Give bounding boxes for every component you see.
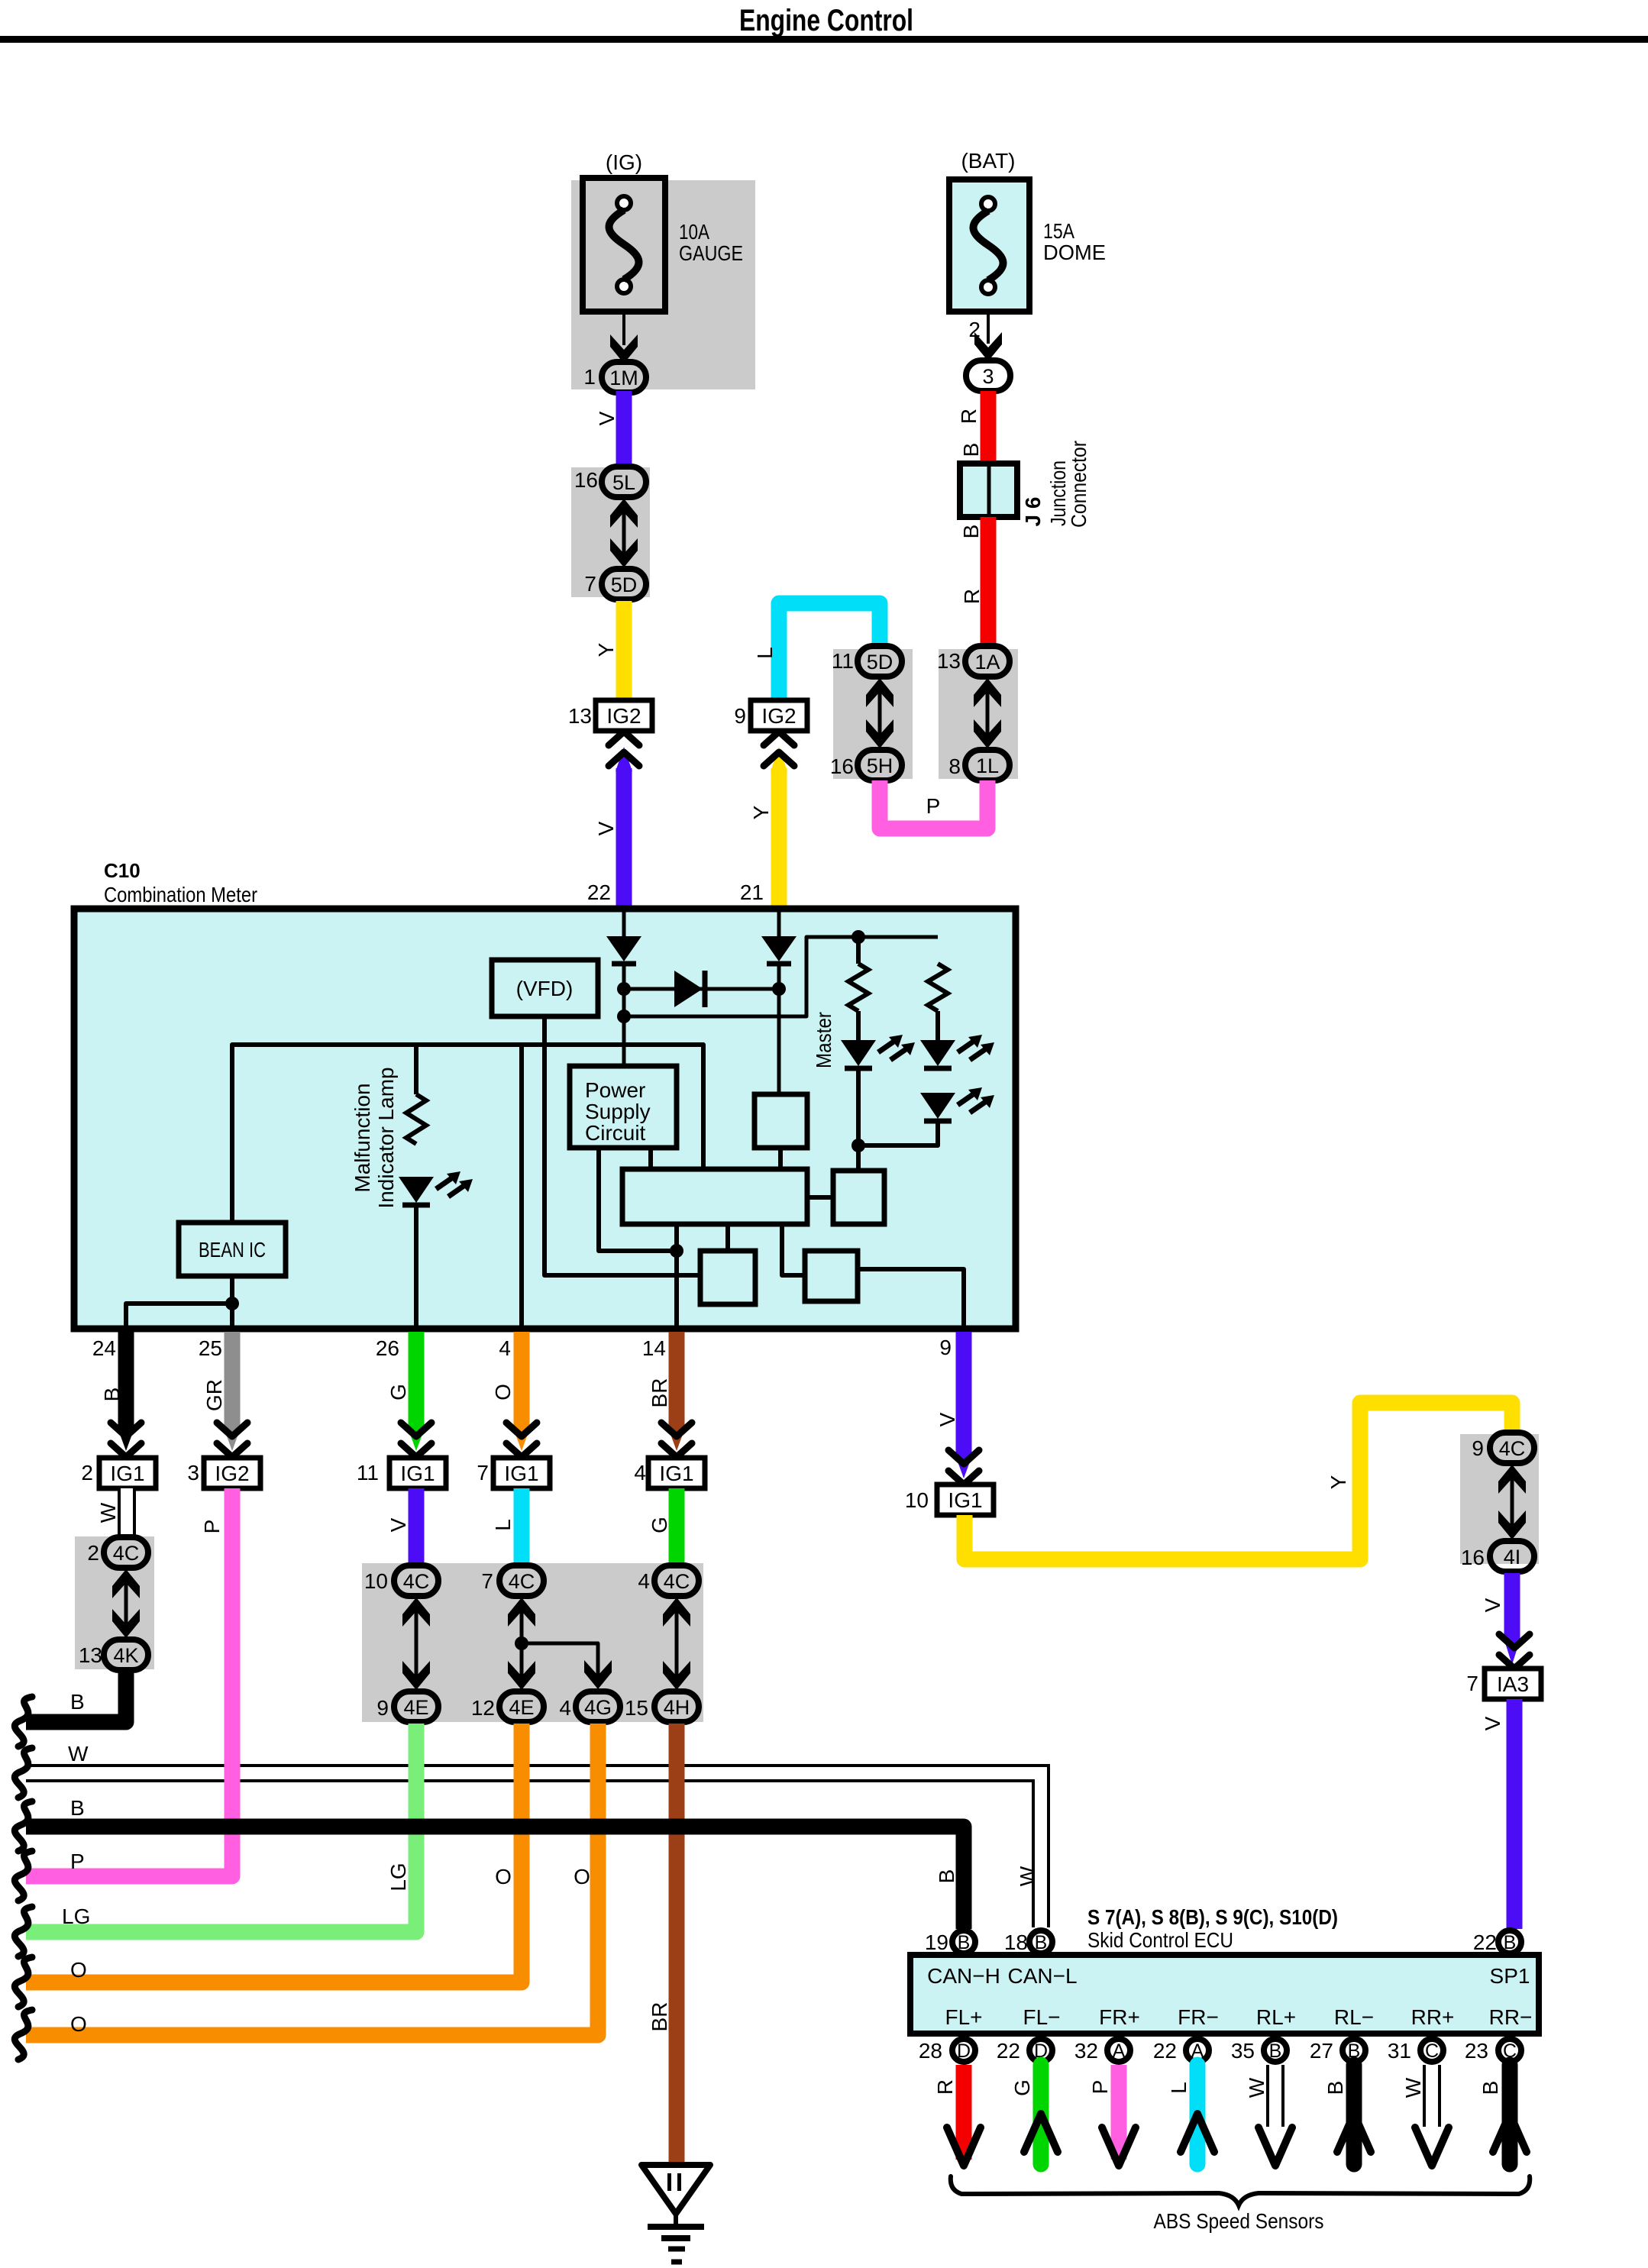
svg-text:7: 7 [481, 1569, 493, 1593]
label RL- [1334, 2005, 1374, 2029]
svg-text:4G: 4G [584, 1696, 612, 1719]
connector 4E pin 12 [471, 1691, 544, 1722]
gray box connectors 5L/5D [571, 467, 650, 597]
brace ABS Speed Sensors [951, 2176, 1530, 2205]
LED master 1 [841, 1035, 915, 1068]
pass-through arrow 4C to 4K [112, 1569, 140, 1638]
connector 3 [966, 360, 1010, 391]
title: Engine Control [739, 4, 913, 37]
svg-text:(BAT): (BAT) [961, 149, 1015, 173]
label CAN-L [1007, 1964, 1077, 1988]
junction block IA3 pin 7 [1466, 1669, 1541, 1699]
svg-text:L: L [1167, 2082, 1191, 2094]
svg-text:B: B [935, 1869, 958, 1884]
connector 5D pin 7 [584, 569, 646, 599]
wire branch2 to dot4 [858, 1121, 938, 1145]
svg-text:9: 9 [376, 1696, 389, 1720]
svg-text:V: V [1481, 1716, 1504, 1730]
svg-text:4C: 4C [403, 1570, 430, 1593]
svg-text:Combination Meter: Combination Meter [104, 883, 257, 906]
svg-text:B: B [1269, 2040, 1282, 2062]
svg-text:P: P [1088, 2080, 1112, 2095]
wire B5 to pin9 [858, 1269, 964, 1327]
svg-text:Engine Control: Engine Control [739, 4, 913, 37]
pass-through arrow 4C-4 to 4H-15 [663, 1598, 690, 1690]
big logic box [622, 1169, 807, 1224]
wire BEAN IC to pin25 [230, 1276, 234, 1327]
ground II [641, 2165, 710, 2262]
svg-text:(IG): (IG) [606, 150, 642, 174]
wire R from 3 to J6 [981, 391, 997, 466]
svg-text:13: 13 [79, 1643, 102, 1667]
svg-text:1A: 1A [974, 651, 1000, 674]
pin circle B 19 [925, 1930, 975, 1954]
svg-text:B: B [100, 1388, 124, 1402]
connector 4C pin 9 [1472, 1433, 1534, 1463]
svg-text:5H: 5H [867, 754, 893, 777]
svg-text:FR+: FR+ [1099, 2005, 1140, 2029]
svg-text:J 6: J 6 [1021, 497, 1045, 527]
label O vertical 2 [574, 1865, 590, 1888]
label Y [594, 642, 618, 657]
svg-text:13: 13 [568, 704, 592, 728]
svg-text:B: B [70, 1796, 85, 1820]
svg-text:W: W [68, 1742, 89, 1766]
svg-text:12: 12 [471, 1696, 495, 1720]
label 10A GAUGE [679, 220, 743, 265]
svg-text:4I: 4I [1504, 1546, 1521, 1569]
diode D1 [606, 936, 641, 964]
svg-text:V: V [386, 1517, 410, 1532]
wire L FR- sensor [1181, 2065, 1214, 2164]
label O row 2 [70, 2012, 87, 2036]
connector 5H pin 16 [830, 750, 902, 780]
svg-text:1: 1 [583, 365, 596, 389]
box B5 [805, 1251, 858, 1301]
label R [957, 409, 981, 424]
arrow into IG1-2 [111, 1423, 141, 1457]
label R [960, 589, 984, 604]
combination meter C10 box [74, 909, 1016, 1329]
wire pin24 internal [126, 1304, 232, 1327]
gray box connectors 4C/4E/4G/4H [362, 1563, 703, 1722]
label P [1088, 2080, 1112, 2095]
label Malfunction Indicator Lamp [351, 1067, 398, 1208]
svg-text:22: 22 [587, 880, 611, 904]
page break curl B row 2 [15, 1801, 32, 1851]
svg-text:35: 35 [1231, 2039, 1255, 2063]
wire LG from 4E-9 to left edge [26, 1724, 416, 1932]
box B3 [700, 1251, 755, 1304]
svg-text:RL+: RL+ [1256, 2005, 1296, 2029]
branch wire to 4G [522, 1643, 598, 1684]
connector 5D pin 11 [832, 646, 902, 677]
gray box connectors 1A-13/1L-8 [939, 649, 1018, 779]
skid control ECU box [910, 1955, 1539, 2034]
pin circle D 28 [919, 2039, 975, 2063]
svg-text:22: 22 [1473, 1930, 1497, 1954]
label B [959, 525, 983, 539]
label Combination Meter [104, 883, 257, 906]
connector 4E pin 9 [376, 1691, 438, 1722]
box BEAN IC [179, 1223, 286, 1276]
wire G IG1-4 to 4C-4 [669, 1488, 685, 1567]
svg-text:9: 9 [1472, 1436, 1484, 1460]
svg-text:RR−: RR− [1489, 2005, 1533, 2029]
label FR- [1178, 2005, 1219, 2029]
label C10 [104, 859, 141, 882]
svg-text:1L: 1L [976, 754, 999, 777]
svg-text:RL−: RL− [1334, 2005, 1374, 2029]
svg-text:5D: 5D [867, 651, 893, 674]
svg-text:Master: Master [812, 1012, 835, 1068]
svg-text:L: L [491, 1519, 515, 1531]
label Y [1326, 1475, 1350, 1489]
connector 4C pin 4 [638, 1565, 699, 1596]
wire bigbox to B3 [725, 1224, 730, 1251]
diode D3 horizontal [674, 971, 705, 1007]
connector 4K pin 13 [79, 1640, 148, 1670]
svg-text:A: A [1113, 2040, 1126, 2062]
node dot 4G branch [515, 1636, 528, 1650]
svg-text:W: W [1401, 2077, 1425, 2098]
svg-text:LG: LG [386, 1863, 410, 1891]
resistor master branch 1 [848, 937, 868, 1040]
pass-through arrow 1A to 1L [974, 678, 1001, 748]
svg-text:Connector: Connector [1067, 441, 1091, 528]
svg-text:21: 21 [740, 880, 764, 904]
svg-text:O: O [491, 1384, 515, 1401]
label B [959, 443, 983, 457]
svg-text:B: B [70, 1690, 85, 1714]
label W [1401, 2077, 1425, 2098]
node dot6 [225, 1297, 239, 1310]
svg-text:GR: GR [202, 1379, 226, 1411]
node dot5 [670, 1244, 683, 1258]
svg-text:31: 31 [1388, 2039, 1411, 2063]
junction block IG1 pin 2 [81, 1458, 156, 1488]
svg-text:4C: 4C [1499, 1437, 1526, 1460]
box Power Supply Circuit [570, 1066, 677, 1148]
label B row [70, 1796, 85, 1820]
wire bigbox to B2 [807, 1195, 833, 1200]
wire W IG1-2 to 4C-2 [118, 1488, 136, 1539]
svg-text:26: 26 [376, 1336, 399, 1360]
svg-text:P: P [200, 1520, 224, 1534]
label 21 meter pin [740, 880, 764, 904]
svg-text:3: 3 [187, 1461, 199, 1485]
svg-text:14: 14 [642, 1336, 666, 1360]
label LG row [62, 1905, 90, 1928]
junction block IG1 pin 4 [634, 1458, 705, 1488]
svg-text:O: O [70, 2012, 87, 2036]
svg-text:27: 27 [1310, 2039, 1333, 2063]
svg-text:IG2: IG2 [215, 1462, 249, 1485]
arrow into IG1-7 [506, 1423, 537, 1457]
wire V from 1M to 5L [616, 391, 632, 470]
svg-text:8: 8 [948, 754, 961, 778]
label RL+ [1256, 2005, 1296, 2029]
label V [1481, 1716, 1504, 1730]
pin circle A 32 [1074, 2039, 1130, 2063]
wire V pin9 [955, 1332, 972, 1478]
svg-text:G: G [1010, 2079, 1034, 2096]
wire L from IG2-9 up to 5D-11 [779, 603, 880, 703]
svg-text:V: V [595, 411, 619, 425]
gray box connectors 5D-11/5H-16 [833, 649, 913, 779]
svg-text:B: B [1323, 2081, 1347, 2095]
svg-text:4: 4 [499, 1336, 511, 1360]
connector 5L pin 16 [574, 467, 646, 497]
label ABS Speed Sensors [1154, 2209, 1324, 2233]
svg-text:3: 3 [982, 365, 994, 388]
svg-text:18: 18 [1004, 1930, 1028, 1954]
gray box connectors 4C-2/4K-13 [75, 1536, 154, 1669]
wire R from J6 to 1A [981, 517, 997, 652]
label pin 24 [92, 1336, 116, 1360]
diode D2 [761, 936, 797, 964]
wire PSC to dot5 [599, 1148, 677, 1251]
fuse 15A DOME [949, 179, 1029, 312]
svg-text:16: 16 [830, 754, 854, 778]
wire H1 dot1-dot3 [624, 987, 779, 991]
svg-text:O: O [574, 1865, 590, 1888]
wire P FR+ sensor [1102, 2065, 1136, 2166]
svg-text:B: B [959, 443, 983, 457]
label BR [648, 1378, 671, 1408]
wire V from 4I to IA3 [1504, 1573, 1520, 1665]
node dot4 [851, 1139, 865, 1152]
pin circle B 18 [1004, 1930, 1052, 1954]
label L [491, 1519, 515, 1531]
svg-text:RR+: RR+ [1411, 2005, 1455, 2029]
label pin 2 [968, 318, 981, 341]
svg-text:10: 10 [364, 1569, 388, 1593]
wire pin4 internal [519, 1045, 524, 1327]
wire G pin26 [408, 1332, 425, 1451]
label G [1010, 2079, 1034, 2096]
svg-text:FR−: FR− [1178, 2005, 1219, 2029]
pass-through arrow 4C-7 to 4E-12 [508, 1598, 535, 1690]
svg-text:4: 4 [638, 1569, 650, 1593]
label B vertical [935, 1869, 958, 1884]
label V [1481, 1598, 1504, 1612]
junction block IG2 pin 3 [187, 1458, 260, 1488]
label B [100, 1388, 124, 1402]
wire B from 4K to left edge [26, 1670, 126, 1722]
svg-text:10A: 10A [679, 220, 709, 244]
label O [491, 1384, 515, 1401]
svg-text:9: 9 [939, 1336, 952, 1359]
wire W RL+ sensor [1259, 2065, 1292, 2166]
resistor master branch 2 [928, 964, 948, 1040]
svg-text:BR: BR [648, 1378, 671, 1408]
top rule [0, 36, 1648, 43]
svg-text:C: C [1425, 2040, 1439, 2062]
svg-text:S 7(A), S 8(B), S 9(C), S10(D): S 7(A), S 8(B), S 9(C), S10(D) [1087, 1905, 1338, 1929]
wire L IG1-7 to 4C-7 [514, 1488, 530, 1567]
svg-text:IG2: IG2 [761, 704, 796, 728]
svg-text:W: W [96, 1502, 120, 1523]
label FR+ [1099, 2005, 1140, 2029]
fuse 10A GAUGE [583, 178, 665, 312]
arrow into 3 [974, 332, 1002, 361]
label S7-S10 [1087, 1905, 1338, 1929]
page break curl O row 1 [15, 1957, 32, 2007]
svg-text:O: O [70, 1958, 87, 1982]
svg-text:R: R [957, 409, 981, 424]
arrow into 1M [610, 334, 638, 363]
label O row [70, 1958, 87, 1982]
wire pin21 internal [777, 912, 781, 936]
label RR- [1489, 2005, 1533, 2029]
gray box connectors 4C-9/4I-16 [1460, 1434, 1539, 1564]
svg-text:IG1: IG1 [400, 1462, 435, 1485]
svg-text:4: 4 [559, 1696, 571, 1720]
LED malfunction [399, 1171, 473, 1205]
svg-text:22: 22 [1153, 2039, 1177, 2063]
label Skid Control ECU [1087, 1928, 1233, 1952]
label 15A DOME [1043, 219, 1106, 264]
junction block IG1 pin 11 [357, 1458, 446, 1488]
svg-text:Y: Y [1326, 1475, 1350, 1489]
label V [386, 1517, 410, 1532]
label 22 meter pin [587, 880, 611, 904]
svg-text:Supply: Supply [585, 1100, 651, 1123]
wire V from IG2 to meter pin 22 [616, 747, 632, 910]
page break curl LG row [15, 1907, 32, 1956]
svg-text:G: G [648, 1517, 671, 1533]
connector 1A pin 13 [937, 646, 1010, 677]
pass-through arrow 4C-9 to 4I-16 [1498, 1465, 1526, 1539]
arrow into IG1-4 [661, 1423, 692, 1457]
junction block IG2 pin 9 [734, 700, 807, 731]
svg-text:Power: Power [585, 1078, 645, 1102]
wire W to CAN-L [26, 1766, 1049, 1927]
wire bigbox to pin14 [674, 1224, 679, 1327]
node dot2 [617, 1010, 631, 1023]
label B [1323, 2081, 1347, 2095]
svg-text:7: 7 [1466, 1672, 1478, 1695]
wire pin22 internal [622, 912, 626, 936]
label pin 4 [499, 1336, 511, 1360]
label Master [812, 1012, 835, 1068]
label pin 26 [376, 1336, 399, 1360]
svg-text:R: R [960, 589, 984, 604]
label LG vertical [386, 1863, 410, 1891]
svg-text:2: 2 [87, 1541, 99, 1565]
connector 4I pin 16 [1461, 1541, 1534, 1572]
connector 1L pin 8 [948, 750, 1010, 780]
wire malfunction to pin26 [414, 1205, 418, 1327]
svg-text:R: R [933, 2079, 957, 2095]
wire bigbox to B5 [782, 1224, 805, 1275]
svg-text:IG1: IG1 [659, 1462, 693, 1485]
label V [935, 1412, 959, 1426]
junction block IG1 pin 7 [477, 1458, 550, 1488]
label FL+ [945, 2005, 982, 2029]
svg-text:13: 13 [937, 649, 961, 673]
arrow into 4G [584, 1660, 612, 1689]
label W [96, 1502, 120, 1523]
wire O from 4G to left edge [26, 1724, 598, 2035]
svg-text:BEAN IC: BEAN IC [199, 1238, 266, 1262]
junction connector J6 [960, 464, 1017, 517]
label pin 25 [199, 1336, 222, 1360]
wire O pin4 [513, 1332, 530, 1451]
svg-text:B: B [1504, 1932, 1517, 1953]
wire B1 to bigbox [778, 1148, 783, 1169]
svg-text:BR: BR [648, 2002, 671, 2032]
chevrons below IG2-9 [764, 732, 794, 766]
label V [594, 821, 618, 835]
wire below D1 [622, 966, 626, 1068]
wire fuse to connector 1M [622, 312, 625, 345]
resistor malfunction [406, 1094, 426, 1144]
svg-text:B: B [959, 525, 983, 539]
svg-text:(VFD): (VFD) [516, 977, 574, 1000]
wire V from IA3 to SP1 [1507, 1699, 1523, 1929]
arrow into IG2-3 [217, 1423, 247, 1457]
wire GR pin25 [224, 1332, 241, 1451]
svg-text:V: V [1481, 1598, 1504, 1612]
svg-text:V: V [594, 821, 618, 835]
svg-text:32: 32 [1074, 2039, 1098, 2063]
box B1 [755, 1094, 807, 1148]
wire BR pin14 [668, 1332, 685, 1451]
svg-text:ABS Speed Sensors: ABS Speed Sensors [1154, 2209, 1324, 2233]
arrow into IG1-11 [401, 1423, 431, 1457]
svg-text:B: B [1478, 2081, 1502, 2095]
svg-text:22: 22 [997, 2039, 1020, 2063]
svg-text:W: W [1245, 2077, 1268, 2098]
label Y [749, 805, 773, 819]
wire O from 4E-12 to left edge [26, 1724, 522, 1982]
LED master 2 [920, 1035, 994, 1068]
wire B to CAN-H [26, 1827, 964, 1929]
label R [933, 2079, 957, 2095]
svg-text:10: 10 [905, 1488, 929, 1512]
label B [70, 1690, 85, 1714]
connector 4C pin 2 [87, 1537, 148, 1568]
svg-text:SP1: SP1 [1490, 1964, 1530, 1988]
node dot on master feed [851, 930, 865, 944]
svg-text:GAUGE: GAUGE [679, 241, 743, 265]
page break curl B row [15, 1697, 32, 1746]
svg-text:11: 11 [832, 649, 854, 673]
label G [648, 1517, 671, 1533]
svg-text:L: L [753, 647, 777, 659]
svg-text:G: G [386, 1384, 410, 1401]
svg-text:V: V [935, 1412, 959, 1426]
wire Y from IG1-10 to 4C-9 [965, 1403, 1512, 1559]
wire PSC stub to big box [648, 1148, 653, 1171]
label pin 14 [642, 1336, 666, 1360]
page break curl P row [15, 1851, 32, 1901]
svg-text:2: 2 [81, 1461, 93, 1485]
label L [753, 647, 777, 659]
svg-text:1M: 1M [609, 367, 638, 389]
svg-text:11: 11 [357, 1461, 379, 1485]
wire G FL- sensor [1024, 2065, 1058, 2164]
svg-text:B: B [958, 1932, 971, 1953]
label W vertical [1016, 1866, 1039, 1886]
svg-text:IG1: IG1 [110, 1462, 144, 1485]
connector 1M pin 1 [583, 362, 646, 393]
svg-text:16: 16 [574, 468, 598, 492]
svg-text:CAN−H: CAN−H [927, 1964, 1000, 1988]
pass-through arrow 5L to 5D [610, 499, 638, 567]
